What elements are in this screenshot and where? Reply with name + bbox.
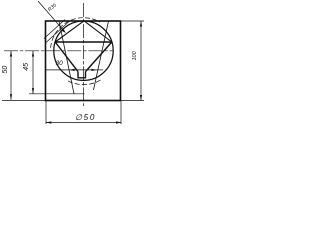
right dim extension bottom: [120, 100, 144, 102]
bottom dim line: [46, 122, 121, 124]
bottom dim extension left: [45, 101, 47, 124]
triangle right side to apex: [84, 21, 112, 42]
svg-text:30: 30: [56, 60, 64, 67]
triangle left side to apex: [55, 21, 84, 42]
leader line: [38, 1, 65, 32]
right dim extension top: [120, 20, 144, 22]
neck box: [78, 72, 86, 78]
circle (blank outline): [54, 21, 113, 80]
corner diagonal B2: [44, 20, 65, 39]
funnel left wall: [55, 42, 78, 72]
svg-text:100: 100: [132, 50, 138, 60]
extension line y=93.8: [29, 93, 85, 95]
svg-text:∅50: ∅50: [75, 113, 96, 122]
funnel right wall: [86, 42, 112, 72]
horizontal centerline: [4, 50, 113, 52]
inner cone slant line left: [59, 21, 74, 94]
svg-text:45: 45: [23, 63, 30, 71]
dashed construction arc bottom: [67, 80, 101, 85]
inner cone slant line right: [94, 21, 109, 90]
vertical centerline: [82, 3, 84, 106]
right dim line (100): [140, 21, 142, 101]
bottom dim extension right: [120, 101, 122, 124]
bottom edge extension to left: [2, 100, 46, 102]
svg-text:R35: R35: [47, 2, 58, 13]
left dim line 2 (45): [32, 51, 34, 94]
30 dim line: [46, 69, 104, 71]
dashed construction arc left-top: [51, 18, 100, 48]
svg-text:50: 50: [2, 66, 9, 74]
30 dim arrow left: [69, 69, 75, 71]
outer plate square outline: [46, 21, 121, 101]
30 dim arrow right: [91, 69, 97, 71]
corner diagonal B: [46, 22, 69, 43]
left dim line 1 (50): [10, 51, 12, 100]
leader arrowhead: [61, 28, 66, 33]
funnel mouth chord thick: [55, 41, 112, 43]
